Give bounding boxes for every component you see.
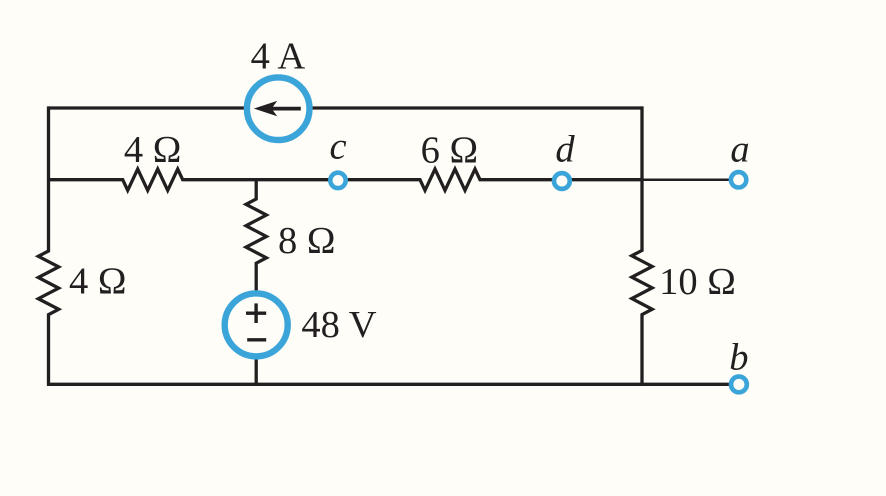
node d (554, 173, 570, 189)
wire: left vertical upper + resistor 4ohm vertical + lower to bottom (38, 106, 58, 385)
plus sign (246, 303, 266, 323)
wire: middle horizontal with 4ohm and 6ohm zigzags (47, 169, 642, 190)
terminal b (731, 377, 747, 393)
svg-text:10 Ω: 10 Ω (659, 261, 736, 303)
svg-text:a: a (730, 129, 749, 171)
wire: top horizontal (49, 106, 643, 109)
svg-text:4 Ω: 4 Ω (124, 129, 182, 171)
voltage source 48V circle (225, 293, 288, 356)
svg-text:8 Ω: 8 Ω (278, 220, 336, 262)
node c (330, 173, 345, 188)
current source 4A circle (247, 77, 310, 140)
terminal a (731, 172, 746, 187)
svg-text:4 A: 4 A (251, 36, 306, 78)
svg-text:48 V: 48 V (301, 304, 376, 346)
minus sign (247, 338, 266, 341)
svg-text:d: d (555, 129, 575, 171)
svg-text:6 Ω: 6 Ω (421, 129, 479, 171)
svg-text:c: c (329, 126, 346, 168)
svg-text:4 Ω: 4 Ω (69, 260, 127, 302)
wire: right vertical with 10ohm zigzag (632, 106, 652, 385)
wire: bottom horizontal (47, 383, 736, 386)
current source arrow (254, 101, 301, 116)
svg-text:b: b (729, 337, 748, 379)
wire: middle branch vertical with 8ohm zigzag down to bottom (246, 180, 266, 385)
wire: stub to terminal a (642, 178, 734, 181)
